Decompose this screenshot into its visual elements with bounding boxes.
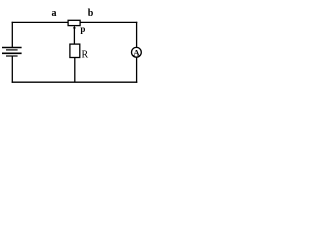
ammeter A (circle) — [132, 47, 142, 57]
wire bottom — [12, 81, 138, 83]
wire right rail lower (ammeter down to bottom wire) — [136, 57, 138, 83]
wire left rail upper (top wire down to battery) — [11, 22, 13, 48]
svg-text:R: R — [82, 49, 89, 60]
svg-text:A: A — [133, 47, 140, 57]
potentiometer wiper arrow P — [73, 26, 76, 45]
resistor R — [70, 44, 80, 57]
wire resistor bottom to bottom wire — [74, 57, 76, 82]
wire top-left (battery + to potentiometer terminal a) — [12, 21, 69, 23]
potentiometer body (slide rheostat track a-b) — [68, 20, 80, 25]
svg-text:a: a — [52, 8, 57, 19]
wire left rail lower (battery - down to bottom wire) — [11, 56, 13, 83]
svg-text:p: p — [80, 24, 85, 34]
wire right rail upper (top wire down to ammeter) — [136, 22, 138, 48]
wire top-right (potentiometer terminal b to right rail) — [80, 21, 137, 23]
svg-text:b: b — [88, 8, 94, 19]
battery B1 (two cells: long/short plates) — [2, 48, 22, 57]
